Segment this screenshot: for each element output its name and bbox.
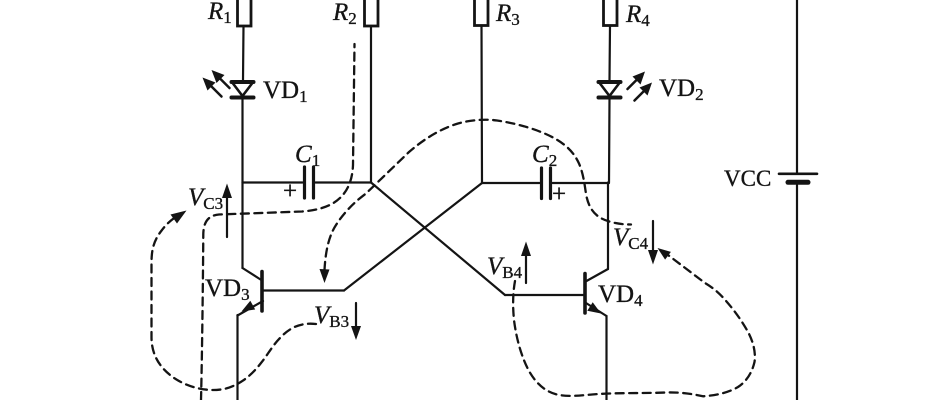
resistor R3 xyxy=(475,0,489,26)
resistor R2 xyxy=(365,0,379,26)
svg-text:VD1: VD1 xyxy=(263,77,308,106)
svg-text:VC4: VC4 xyxy=(613,224,649,253)
battery VCC xyxy=(779,174,817,183)
LED VD2 xyxy=(599,82,621,98)
dashed current loop left outer xyxy=(152,216,317,391)
svg-text:VB4: VB4 xyxy=(487,253,523,282)
wire collector drop VD3 xyxy=(241,183,243,269)
wire C1 to R2 node xyxy=(316,181,372,183)
svg-text:VC3: VC3 xyxy=(188,184,223,213)
wire R3 down to node xyxy=(480,26,483,184)
LED VD1 xyxy=(232,82,254,98)
wire VCC rail bottom xyxy=(796,185,798,400)
wire cross-couple R3 node to VD3 base xyxy=(344,183,482,291)
resistor R4 xyxy=(604,0,618,26)
VD2 light arrows xyxy=(628,72,653,101)
arrowhead discharge curve xyxy=(320,269,330,283)
svg-text:VD4: VD4 xyxy=(598,281,643,310)
wire R2 down to node xyxy=(370,26,372,183)
svg-text:R2: R2 xyxy=(332,0,357,28)
wire VD3 collector node to C1 xyxy=(243,181,303,183)
wire VCC rail top xyxy=(796,0,798,173)
svg-text:VCC: VCC xyxy=(724,166,771,191)
svg-text:C1: C1 xyxy=(295,141,320,170)
wire R1 to VD1 xyxy=(242,26,245,80)
svg-text:VB3: VB3 xyxy=(314,302,349,331)
wire collector drop VD4 xyxy=(607,183,609,270)
wire VD4 emitter down xyxy=(605,316,607,400)
VD1 light arrows xyxy=(203,70,230,97)
wire cross-couple R2 node to VD4 base xyxy=(371,183,505,296)
dashed current loop right xyxy=(513,255,755,396)
wire VD1 to collector node xyxy=(241,99,243,183)
wire R4 to VD2 xyxy=(608,26,611,81)
arrowhead left outer loop xyxy=(171,211,187,224)
svg-text:R1: R1 xyxy=(207,0,232,27)
svg-text:+: + xyxy=(283,178,297,205)
capacitor C2 xyxy=(542,168,551,199)
svg-text:VD3: VD3 xyxy=(205,275,250,304)
svg-text:R3: R3 xyxy=(495,0,520,29)
svg-text:+: + xyxy=(552,181,566,208)
capacitor C1 xyxy=(305,167,314,198)
wire C2 to VD2 rail xyxy=(553,182,610,184)
svg-text:R4: R4 xyxy=(625,1,650,30)
wire R3 node to C2 xyxy=(482,182,540,184)
resistor R1 xyxy=(238,0,252,26)
transistor VD3 xyxy=(238,268,264,316)
svg-text:C2: C2 xyxy=(532,141,557,170)
wire VD3 emitter down xyxy=(236,315,238,400)
transistor VD4 xyxy=(585,269,608,316)
arrowhead right loop xyxy=(658,248,671,260)
dashed line left inner xyxy=(201,44,355,400)
wire VD2 down to collector of VD4 xyxy=(608,99,611,183)
wire VD4 base horizontal xyxy=(505,294,584,296)
dashed discharge curve top xyxy=(325,120,632,270)
svg-text:VD2: VD2 xyxy=(659,75,704,104)
wire VD3 base horizontal xyxy=(264,289,345,291)
